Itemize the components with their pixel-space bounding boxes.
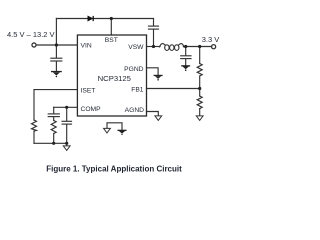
svg-text:AGND: AGND (125, 107, 144, 114)
svg-text:VIN: VIN (81, 43, 92, 50)
capacitor C_OUT (185, 47, 187, 56)
node FB junction (198, 87, 201, 90)
wire VSW pin to inductor (147, 46, 161, 48)
wire exposed-pad ground staple below IC (107, 123, 122, 130)
svg-text:3.3 V: 3.3 V (202, 35, 220, 44)
node VOUT divider junction (198, 45, 201, 48)
wire PGND pin to ground (147, 68, 159, 75)
wire input to VIN pin (36, 44, 77, 46)
ground (power, filled) at PGND (154, 75, 163, 81)
node VOUT output terminal (212, 45, 216, 49)
ground (signal, open) below IC left (104, 128, 111, 133)
capacitor C_COMP1 (series RC branch) (53, 107, 55, 113)
inductor L1 (160, 44, 184, 47)
node input junction (55, 43, 58, 46)
ground (signal, open) at AGND (155, 116, 162, 121)
svg-text:ISET: ISET (81, 87, 96, 94)
svg-text:VSW: VSW (128, 44, 144, 51)
node VSW junction (152, 45, 155, 48)
svg-text:COMP: COMP (81, 106, 102, 113)
resistor R_FB_bottom (199, 89, 201, 97)
wire FB1 pin to divider (147, 88, 200, 90)
diode D1 (88, 16, 93, 21)
wire BST drop into IC (110, 19, 112, 36)
resistor R_COMP (53, 117, 55, 120)
node VIN input terminal (32, 43, 36, 47)
wire diode cathode to BST cap corner (93, 18, 153, 20)
svg-text:NCP3125: NCP3125 (98, 74, 131, 83)
wire AGND pin to ground (147, 112, 159, 116)
ground (signal, open) at R_FB_bottom (196, 116, 203, 121)
IC U1 NCP3125 body (77, 35, 146, 116)
wire COMP pin (54, 106, 78, 108)
ground (signal, open) at compensation rail (63, 146, 70, 151)
svg-text:Figure 1. Typical Application: Figure 1. Typical Application Circuit (46, 164, 182, 173)
ground (power, filled) at C_IN (51, 71, 62, 77)
wire inductor to output terminal (183, 46, 211, 48)
node VOUT cap junction (184, 45, 187, 48)
junction dots (52, 17, 201, 145)
node BST junction (110, 17, 113, 20)
capacitor C_IN (55, 45, 57, 58)
ground (power, filled) at C_OUT (181, 65, 190, 71)
capacitor C_BST (153, 19, 155, 26)
wire ISET pin to resistor (34, 90, 77, 120)
svg-text:FB1: FB1 (131, 86, 144, 93)
wire top rail left segment to diode (56, 18, 88, 20)
node rail junction B (65, 142, 68, 145)
ground (power, filled) below IC right (118, 130, 127, 135)
node COMP junction (65, 106, 68, 109)
capacitor C_COMP2 (parallel branch) (66, 107, 68, 121)
svg-text:4.5 V – 13.2 V: 4.5 V – 13.2 V (7, 30, 55, 39)
resistor R_FB_top (199, 47, 201, 64)
wire compensation ground rail (34, 142, 67, 144)
wire input junction up to bootstrap rail (55, 19, 57, 46)
svg-text:BST: BST (105, 37, 118, 44)
node rail junction A (52, 142, 55, 145)
resistor R_ISET (32, 120, 37, 131)
svg-text:PGND: PGND (124, 66, 143, 73)
